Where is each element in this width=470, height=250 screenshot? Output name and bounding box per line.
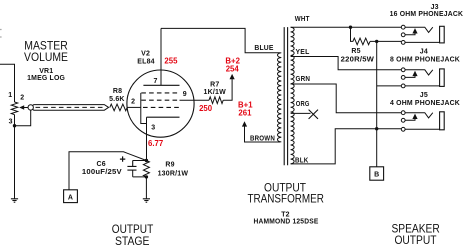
tube grid g1 (dashed) xyxy=(143,106,180,108)
wire WHT tap (16 ohm) xyxy=(291,26,402,28)
svg-text:V2: V2 xyxy=(141,51,150,58)
connector A box xyxy=(64,190,78,203)
svg-text:EL84: EL84 xyxy=(137,58,155,65)
resistor R7 1K/1W xyxy=(209,97,223,104)
svg-text:2: 2 xyxy=(20,95,24,102)
transformer T2 primary winding xyxy=(277,53,281,142)
wire VR1 pin 3 to junction xyxy=(14,115,16,126)
tube plate (anode) xyxy=(143,84,179,86)
wire sleeve rail xyxy=(376,41,378,166)
wire B+1 to transformer primary (BROWN) xyxy=(245,126,281,142)
svg-text:BLUE: BLUE xyxy=(254,45,273,52)
net arrow B+1 xyxy=(242,121,247,126)
wire plate lead pin 7 xyxy=(160,28,162,85)
svg-text:7: 7 xyxy=(154,78,158,85)
label + (C6 polarity) xyxy=(120,156,125,161)
wire R8 to grid pin 2 xyxy=(127,106,141,108)
shielded cable shield circle xyxy=(28,105,33,110)
svg-text:254: 254 xyxy=(226,64,240,73)
node junction C6 / R9 bottom xyxy=(145,175,148,178)
wire R5 to J3 sleeve xyxy=(370,40,401,42)
svg-text:B: B xyxy=(374,172,379,179)
wire R9 to ground xyxy=(145,177,147,199)
svg-text:BROWN: BROWN xyxy=(250,135,275,142)
svg-text:1: 1 xyxy=(8,92,12,99)
resistor R9 130R/1W xyxy=(143,161,149,177)
tube grid g3 (dashed) xyxy=(141,92,179,94)
svg-text:9: 9 xyxy=(183,91,187,98)
svg-text:T2: T2 xyxy=(281,211,290,218)
tube cathode xyxy=(147,116,180,118)
svg-text:2: 2 xyxy=(131,98,135,105)
tube grid g2 (dashed) xyxy=(141,99,179,101)
wire shield to VR1 pin 3 xyxy=(15,110,31,126)
svg-text:255: 255 xyxy=(164,57,178,66)
wire g2 to R7 (pin 9) xyxy=(180,99,210,101)
tube g3-cathode internal connection xyxy=(141,93,147,124)
node junction WHT / R5 xyxy=(349,26,352,29)
svg-text:3: 3 xyxy=(151,125,155,132)
svg-text:8 OHM PHONEJACK: 8 OHM PHONEJACK xyxy=(390,56,460,63)
wire plate to transformer primary (BLUE) xyxy=(161,28,280,52)
svg-text:4 OHM PHONEJACK: 4 OHM PHONEJACK xyxy=(390,100,460,107)
svg-text:R9: R9 xyxy=(165,162,174,169)
svg-text:OUTPUT: OUTPUT xyxy=(394,233,437,247)
svg-text:6.77: 6.77 xyxy=(148,139,163,148)
svg-text:VR1: VR1 xyxy=(39,68,53,75)
transformer core xyxy=(284,27,287,165)
svg-text:R8: R8 xyxy=(113,88,122,95)
svg-text:250: 250 xyxy=(199,104,213,113)
svg-text:J5: J5 xyxy=(420,92,428,99)
wire YEL tap (8 ohm) xyxy=(291,57,402,70)
phone jack J5 (4 ohm) xyxy=(405,113,433,118)
node junction rail / BLK xyxy=(375,127,378,130)
connector B box xyxy=(370,167,384,180)
capacitor C6 100uF/25V xyxy=(127,161,136,167)
svg-text:3: 3 xyxy=(9,118,13,125)
node junction VR1 pin3 / shield xyxy=(13,124,16,127)
wire junction to ground xyxy=(14,126,16,199)
potentiometer VR1 1MEG LOG xyxy=(11,102,17,115)
svg-text:WHT: WHT xyxy=(295,16,310,23)
svg-text:5.6K: 5.6K xyxy=(109,96,125,103)
svg-text:R7: R7 xyxy=(210,81,219,88)
wire rail to J4 sleeve xyxy=(377,85,402,87)
svg-text:16 OHM PHONEJACK: 16 OHM PHONEJACK xyxy=(390,11,464,18)
node junction cathode / C6 / R9 top xyxy=(145,159,148,162)
svg-text:J4: J4 xyxy=(420,49,428,56)
phone jack J3 (16 ohm) xyxy=(405,27,433,32)
svg-text:VOLUME: VOLUME xyxy=(24,50,68,64)
svg-text:1MEG LOG: 1MEG LOG xyxy=(27,75,65,82)
phone jack J4 (8 ohm) xyxy=(405,70,433,75)
shielded cable body xyxy=(33,105,109,111)
svg-text:HAMMOND 125DSE: HAMMOND 125DSE xyxy=(254,219,319,226)
svg-text:130R/1W: 130R/1W xyxy=(158,171,189,178)
VR1 wiper arrow xyxy=(19,105,24,109)
svg-text:GRN: GRN xyxy=(296,76,311,83)
svg-text:261: 261 xyxy=(238,109,252,118)
wire ORG tap (unused) xyxy=(291,112,311,114)
tube V2 EL84 envelope xyxy=(127,70,194,137)
ground (below R9) xyxy=(143,199,150,202)
wire input to VR1 pin 1 xyxy=(0,64,15,102)
edge mark xyxy=(0,30,2,38)
svg-text:R5: R5 xyxy=(351,48,360,55)
svg-text:220R/5W: 220R/5W xyxy=(341,56,375,63)
wire cathode lead pin 3 xyxy=(146,117,148,160)
wire BLK tap (common) xyxy=(291,129,402,164)
svg-text:J3: J3 xyxy=(431,4,439,11)
shielded cable centre conductor (dashed) xyxy=(36,106,105,108)
transformer T2 secondary winding xyxy=(291,27,295,164)
svg-text:YEL: YEL xyxy=(296,49,311,56)
svg-text:TRANSFORMER: TRANSFORMER xyxy=(247,192,324,206)
wire GRN tap (4 ohm) xyxy=(291,84,402,113)
wire cathode to C6 and A xyxy=(69,152,146,190)
wire R7 to B+2 xyxy=(223,79,232,100)
net arrow B+2 xyxy=(230,74,235,79)
no-connect X on ORG tap xyxy=(309,110,318,119)
svg-text:1K/1W: 1K/1W xyxy=(203,89,226,96)
resistor R5 220R/5W xyxy=(351,27,371,45)
resistor R8 5.6K xyxy=(110,104,127,111)
svg-text:100uF/25V: 100uF/25V xyxy=(82,169,122,176)
svg-text:A: A xyxy=(68,195,73,202)
node junction R5 / sleeve rail xyxy=(375,40,378,43)
svg-text:C6: C6 xyxy=(97,161,106,168)
svg-text:BLK: BLK xyxy=(295,157,308,164)
ground (below VR1) xyxy=(11,199,18,202)
svg-text:STAGE: STAGE xyxy=(115,234,150,248)
svg-text:ORG: ORG xyxy=(296,101,310,108)
